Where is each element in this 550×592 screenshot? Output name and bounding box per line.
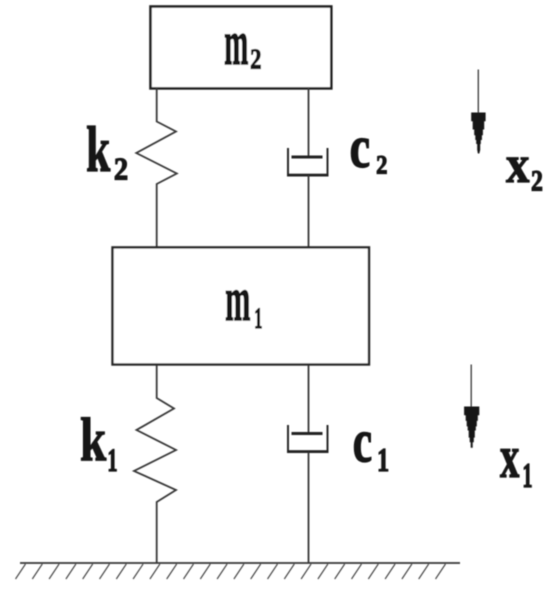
- svg-text:2: 2: [376, 151, 387, 180]
- svg-text:c: c: [353, 406, 372, 475]
- wire damper c2 bottom: [308, 176, 310, 248]
- svg-text:2: 2: [114, 153, 128, 187]
- svg-text:1: 1: [522, 456, 532, 495]
- damper c1 piston: [292, 432, 323, 435]
- damper c2 rod: [308, 87, 310, 157]
- label x1: [500, 424, 519, 491]
- svg-text:1: 1: [377, 442, 389, 479]
- svg-text:c: c: [350, 113, 370, 181]
- label m2: [224, 8, 248, 79]
- label c2: [350, 113, 370, 181]
- ground line: [20, 562, 460, 564]
- svg-text:x: x: [500, 424, 519, 491]
- mass m1: [113, 247, 370, 364]
- damper c1 rod: [308, 366, 310, 434]
- svg-text:m: m: [224, 8, 248, 79]
- arrow x2 line: [477, 70, 479, 115]
- label k2: [86, 113, 110, 185]
- label c1: [353, 406, 372, 475]
- arrow x1 line: [470, 365, 472, 408]
- svg-text:1: 1: [107, 442, 117, 478]
- svg-text:k: k: [86, 113, 110, 185]
- spring k1: [134, 366, 176, 564]
- label m1: [225, 265, 250, 334]
- label k1: [80, 405, 107, 474]
- label x2: [506, 134, 529, 193]
- mass m2: [151, 7, 332, 89]
- wire damper c1 bottom: [308, 452, 310, 563]
- damper c2 cup: [288, 148, 328, 175]
- spring k2: [136, 87, 177, 247]
- damper c2 piston: [292, 156, 323, 159]
- ground hatching: [16, 564, 446, 579]
- svg-text:k: k: [80, 405, 107, 474]
- arrow x2 head: [471, 113, 485, 154]
- svg-text:2: 2: [250, 43, 261, 75]
- svg-text:m: m: [225, 265, 250, 334]
- svg-text:2: 2: [531, 164, 543, 197]
- svg-text:x: x: [506, 134, 529, 193]
- arrow x1 head: [464, 407, 479, 448]
- svg-text:1: 1: [254, 303, 262, 335]
- damper c1 cup: [288, 425, 328, 451]
